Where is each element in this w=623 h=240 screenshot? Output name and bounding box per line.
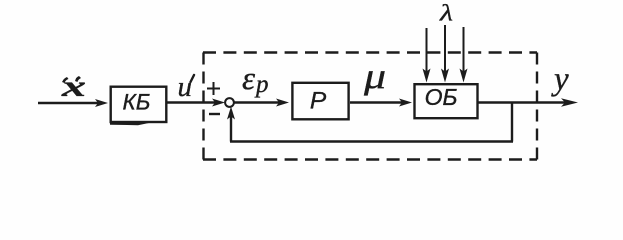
lambda disturbance wire 1	[426, 28, 428, 73]
feedback wire rise to summing junction	[230, 112, 232, 142]
minus sign	[209, 113, 220, 115]
wire arrowhead into KB	[95, 99, 108, 107]
dashed system boundary bottom	[203, 158, 537, 160]
svg-text:u: u	[178, 71, 193, 103]
svg-text:ε: ε	[242, 61, 255, 97]
svg-text:КБ: КБ	[123, 90, 151, 115]
output arrowhead	[561, 98, 578, 107]
svg-text:λ: λ	[439, 0, 453, 26]
feedback wire bottom horizontal	[230, 140, 513, 142]
svg-text:x: x	[61, 69, 86, 103]
dashed system boundary right	[536, 53, 538, 160]
svg-text:у: у	[551, 62, 569, 98]
feedback wire vertical drop	[511, 103, 513, 142]
dashed system boundary top	[203, 51, 537, 53]
wire OB to output y	[478, 101, 570, 103]
svg-text:р: р	[254, 71, 269, 98]
svg-text:Р: Р	[310, 88, 327, 115]
block Р (regulator)	[292, 83, 348, 120]
wire summing junction to P	[234, 101, 282, 103]
ink blob artifact on KB bottom edge	[110, 121, 150, 125]
block КБ	[111, 87, 167, 122]
summing junction circle	[225, 98, 234, 107]
dashed system boundary left	[202, 53, 204, 160]
lambda disturbance wire 2	[444, 25, 446, 73]
feedback arrowhead up into junction	[227, 107, 235, 120]
wire arrowhead into summing junction	[212, 99, 225, 107]
svg-text:ОБ: ОБ	[425, 84, 458, 110]
wire KB to summing junction	[166, 101, 219, 103]
svg-text:μ: μ	[363, 56, 386, 96]
block ОБ (object)	[415, 84, 478, 118]
wire input x to KB	[38, 102, 101, 104]
plus sign	[207, 88, 220, 90]
wire arrowhead into OB	[399, 99, 412, 107]
wire P to OB	[350, 101, 405, 103]
wire arrowhead into P	[276, 99, 289, 107]
lambda disturbance wire 3	[463, 27, 465, 73]
